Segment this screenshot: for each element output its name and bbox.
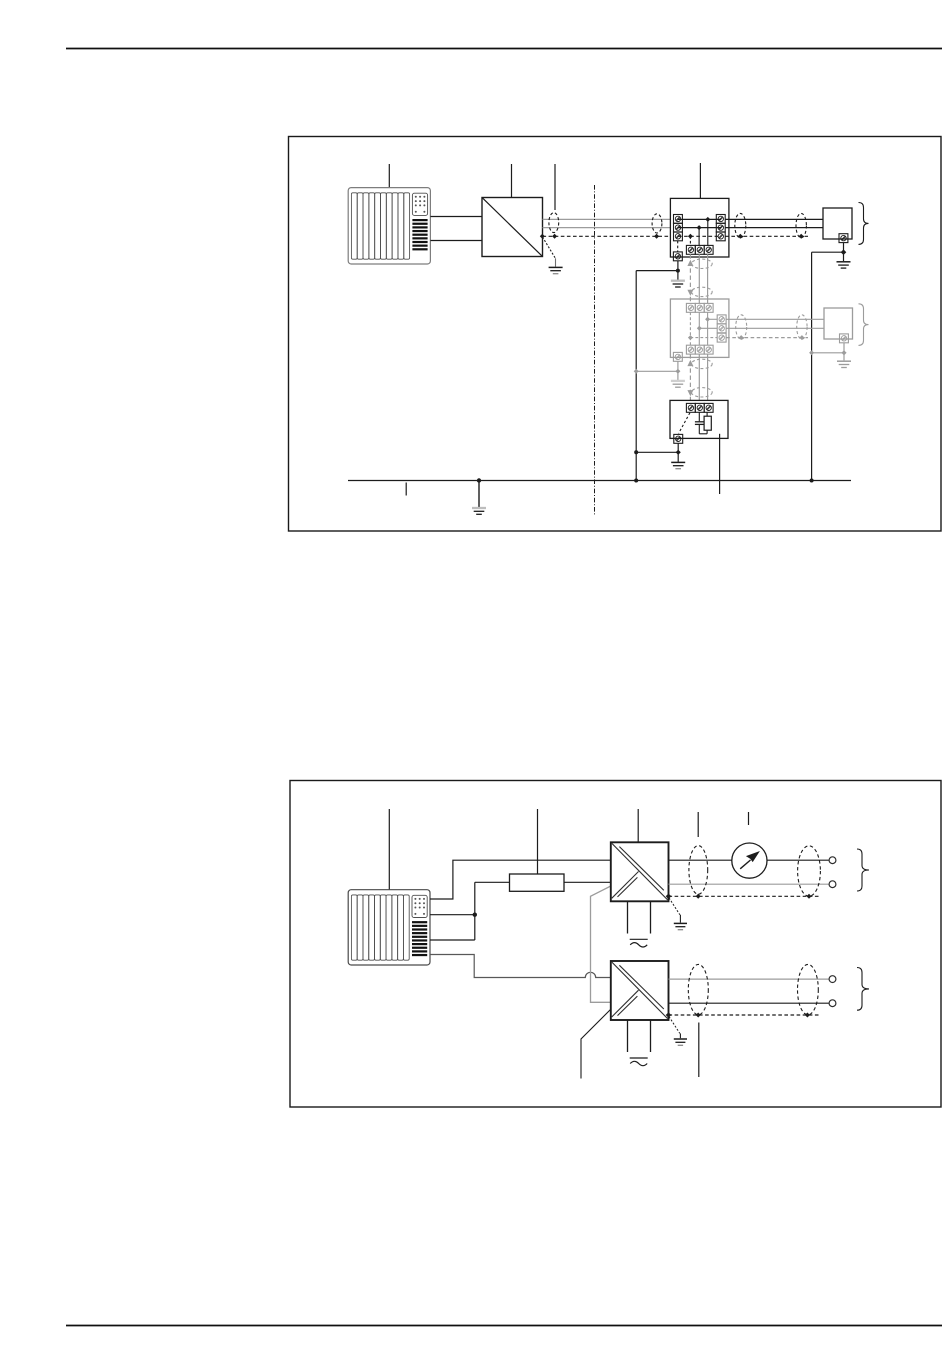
wire: shield channel A (dashed) xyxy=(669,895,821,897)
cable marker ellipse (gray) above box2 xyxy=(691,287,712,296)
wire: junction box to transmitter, conductor 1 xyxy=(725,218,823,220)
wire: junction box internal conductor 1 xyxy=(678,218,721,220)
wire: gray branch to right terminal 1 xyxy=(708,318,718,320)
transmitter (field device) xyxy=(823,208,852,239)
wire: transmitter2 earth down xyxy=(843,343,845,361)
cable marker ellipse (gray) after box2 xyxy=(736,315,747,339)
wire: gray branch to right terminal 3 (dashed) xyxy=(690,337,717,339)
terminal strip: junction box right, terminal 3 xyxy=(716,232,725,241)
indicator / ammeter xyxy=(732,843,767,878)
cable marker ellipse (gray) below box2 xyxy=(691,359,712,368)
leader line: indicator xyxy=(748,812,750,825)
terminal row: box2 bottom 2 xyxy=(695,345,704,354)
wire: left potential-equalization riser xyxy=(635,271,637,481)
capacitor inside box3 xyxy=(695,412,704,434)
node: shield tap at barrier A xyxy=(666,894,672,900)
earth terminal of transmitter xyxy=(839,234,848,243)
wire: gray conductor riser b box1 to box2 xyxy=(707,254,709,303)
wire: dashed drop to barrier A ground xyxy=(669,898,680,915)
wire: branch shield to spare terminal 1 (dashed) xyxy=(689,236,691,246)
terminal strip: junction box left, terminal 2 xyxy=(674,223,683,232)
wire: gray interconnect barrier A to barrier B xyxy=(591,886,612,1002)
terminal row: box2 bottom 3 xyxy=(704,345,713,354)
terminal strip: junction box right, terminal 2 xyxy=(716,223,725,232)
wire: RC bottom link xyxy=(699,433,707,435)
leader line: barrier B (diagonal) xyxy=(581,1010,611,1079)
leader line: cable entry xyxy=(554,164,556,210)
node: box3 earth node xyxy=(676,450,681,455)
wire: gray internal riser shield (dashed) xyxy=(689,312,691,345)
ground: junction box xyxy=(671,281,685,287)
wire: supply unit to junction box, conductor 2 (gray) xyxy=(543,227,674,229)
cable marker ellipse (dashed) at transmitter xyxy=(796,213,806,237)
header rule xyxy=(66,48,942,50)
terminal row: box3 terminal 3 xyxy=(704,403,713,412)
terminal row: box3 terminal 1 xyxy=(686,403,695,412)
wire: PLC to supply unit (+) xyxy=(430,216,482,218)
wire: junction box to transmitter, conductor 2 xyxy=(725,227,823,229)
node: shield junction after junction box xyxy=(738,234,743,239)
wire: gray conductor riser a box1 to box2 xyxy=(698,254,700,303)
arrow: cable direction up xyxy=(687,260,693,266)
wire: cable shield (dashed) supply unit to junction box xyxy=(543,235,674,237)
ground: box3 xyxy=(671,462,685,468)
node: transmitter earth node xyxy=(841,249,847,255)
terminal row: box3 terminal 2 xyxy=(695,403,704,412)
brace: sensor connection (gray) xyxy=(859,304,869,346)
zone divider (hazardous / non-hazardous area) xyxy=(594,185,596,516)
node: shield junction under ellipse A2 xyxy=(807,894,812,899)
ground: barrier A xyxy=(674,923,687,929)
wire: box2 to transmitter2 conductor 2 (gray) xyxy=(726,327,824,329)
active barrier B symbol xyxy=(612,962,668,1018)
active barrier B box xyxy=(611,961,669,1020)
leader line: PLC xyxy=(388,164,390,190)
junction box (field) xyxy=(670,198,729,257)
node: transmitter2 earth node xyxy=(841,350,846,355)
figure frame: diagram 1 xyxy=(289,137,942,532)
wire: junction box internal shield (dashed) xyxy=(678,235,721,237)
arrow: cable direction down (lower gap) xyxy=(687,390,693,396)
node: bus ground tap xyxy=(477,478,481,482)
node: box2 earth node xyxy=(675,369,680,374)
ground: barrier B xyxy=(674,1039,687,1045)
wire: barrier B conductor + (gray) xyxy=(669,978,830,980)
wire: branch conductor 1 to spare terminal 3 xyxy=(707,219,709,246)
terminal column: box2 right 3 xyxy=(717,333,726,342)
leader line: box3 xyxy=(719,434,721,494)
wire: right potential-equalization riser xyxy=(811,252,813,480)
wire: barrier A conductor - (gray) xyxy=(669,883,830,885)
earth terminal of box3 xyxy=(674,434,683,443)
junction box option 2 (gray) xyxy=(670,299,729,357)
brace: sensor connection (top) xyxy=(859,203,869,245)
cable marker ellipse (gray) below box1 xyxy=(691,259,712,268)
node: shield tap at barrier B xyxy=(666,1012,672,1018)
terminal column: box2 right 2 xyxy=(717,324,726,333)
wire: PLC pins to resistor node xyxy=(430,882,510,940)
terminal row: junction box bottom, spare terminal 1 xyxy=(686,245,695,254)
cable marker ellipse A1 xyxy=(689,846,708,895)
node: shield junction at transmitter xyxy=(799,234,804,239)
wire: box3 earth bonding to left riser xyxy=(636,451,678,453)
cable marker ellipse B2 xyxy=(798,964,819,1014)
wire: box3 earth down xyxy=(677,443,679,462)
earth terminal of transmitter2 xyxy=(840,334,849,343)
power supply symbol: barrier A xyxy=(630,939,648,947)
cable marker ellipse B1 xyxy=(688,964,708,1014)
ground: transmitter2 (gray) xyxy=(837,361,851,367)
ammeter needle xyxy=(740,860,750,869)
leader line: barrier A xyxy=(637,809,639,850)
transmitter 2 (gray option) xyxy=(824,308,853,339)
wire: gray branch to right terminal 2 xyxy=(699,327,717,329)
cable marker ellipse (gray) at transmitter2 xyxy=(797,315,807,339)
leader line: PLC (diagram 2) xyxy=(388,809,390,890)
wire: indicator to terminal + xyxy=(767,859,829,861)
leader line: junction box xyxy=(699,163,701,205)
cable marker ellipse (dashed) before junction box xyxy=(652,214,662,233)
wire: box2 shield (dashed gray) xyxy=(726,337,808,339)
potential equalization line xyxy=(348,480,851,482)
supply legs: barrier A xyxy=(627,901,629,933)
ground: supply unit xyxy=(549,267,563,273)
wire: PLC to supply unit (-) xyxy=(430,240,482,242)
cable marker ellipse (dashed) after junction box xyxy=(735,213,746,237)
communication resistor box xyxy=(510,874,565,891)
node: shield junction before junction box xyxy=(654,234,659,239)
terminal: channel A + xyxy=(829,857,836,864)
leader line: supply unit xyxy=(511,164,513,206)
wire: box2 to transmitter2 conductor 1 (gray) xyxy=(726,318,824,320)
node: gray tie to left riser xyxy=(634,369,639,374)
leader line: cable B (below) xyxy=(698,1023,700,1078)
PLC / control system pictogram (diagram 2) xyxy=(348,890,430,965)
power supply symbol: barrier B xyxy=(630,1058,648,1066)
leader line: cable A xyxy=(697,812,699,837)
wire: gray shield riser (dashed) box1 to box2 xyxy=(689,254,691,303)
wire: transmitter earth down xyxy=(843,243,845,261)
arrow: cable direction down xyxy=(687,290,693,296)
wire: box2 earth bonding to left riser xyxy=(636,370,678,372)
wire: dashed drop to supply-unit ground xyxy=(543,237,556,258)
earth terminal of box2 xyxy=(673,352,682,361)
node: shield junction under ellipse B2 xyxy=(805,1013,810,1018)
terminal row: box2 bottom 1 xyxy=(686,345,695,354)
node: tie on left riser xyxy=(634,450,638,454)
transmitter power supply unit (isolator square) xyxy=(482,198,543,257)
wire: branch conductor 2 to spare terminal 2 xyxy=(698,228,700,246)
brace: channel A field side xyxy=(857,849,869,891)
leader line: communication resistor xyxy=(537,809,539,878)
node: left riser on bus xyxy=(634,479,638,483)
ground: box2 (gray) xyxy=(671,381,685,387)
terminal row: box2 top 2 xyxy=(695,303,704,312)
resistor inside box3 xyxy=(704,412,711,434)
wire: dashed drop to barrier B ground xyxy=(669,1017,680,1034)
wire: shield (dashed) junction box to transmitter xyxy=(725,235,808,237)
wire: transmitter2 earth to right riser xyxy=(812,352,844,354)
brace: channel B field side xyxy=(857,968,869,1011)
terminal row: junction box bottom, spare terminal 2 xyxy=(695,245,704,254)
active barrier A box xyxy=(611,842,669,901)
footer rule xyxy=(66,1325,942,1327)
terminal strip: junction box left, terminal 3 xyxy=(674,232,683,241)
node: shield junction under first ellipse xyxy=(552,234,557,239)
terminal row: box2 top 1 xyxy=(686,303,695,312)
ground: potential equalization xyxy=(472,508,486,514)
wire: gray shield riser (dashed) box2 to box3 xyxy=(689,354,691,403)
figure frame: diagram 2 xyxy=(290,781,941,1108)
terminal row: junction box bottom, spare terminal 3 xyxy=(704,245,713,254)
wire: gray internal riser b xyxy=(707,312,709,345)
node: PLC minus junction xyxy=(473,913,477,917)
terminal: channel B + xyxy=(829,976,836,983)
cable marker ellipse (dashed) after supply unit xyxy=(549,213,559,233)
wire: gray conductor riser a box2 to box3 xyxy=(698,354,700,403)
node: shield junction under ellipse A1 xyxy=(696,894,701,899)
arrow: cable direction up (lower gap) xyxy=(687,360,693,366)
wire: bus ground stem xyxy=(478,481,480,508)
wire: dashed link terminal1 to earth terminal xyxy=(679,413,690,434)
terminal: channel B - xyxy=(829,1000,836,1007)
active barrier A symbol xyxy=(612,844,668,900)
node: gray tie to right riser xyxy=(809,350,814,355)
wire: box2 earth down xyxy=(677,361,679,380)
terminal: channel A - xyxy=(829,881,836,888)
wire: shield channel B (dashed) xyxy=(669,1014,821,1016)
node: shield tap at supply unit xyxy=(540,234,545,239)
wire: resistor to barrier A xyxy=(564,881,611,883)
supply legs: barrier B xyxy=(627,1020,629,1052)
wire: transmitter earth to right riser xyxy=(812,251,844,253)
wire: gray conductor riser b box2 to box3 xyxy=(707,354,709,403)
wire: gray internal riser a xyxy=(698,312,700,345)
wire: PLC to barrier B (lower, with hop) xyxy=(430,955,611,978)
wire: supply unit to junction box, conductor 1 (gray) xyxy=(543,218,674,220)
terminal column: box2 right 1 xyxy=(717,315,726,324)
terminal strip: junction box right, terminal 1 xyxy=(716,215,725,224)
remote indicator box xyxy=(670,400,728,438)
node: shield junction under ellipse B1 xyxy=(696,1013,701,1018)
wire: barrier A to indicator (conductor +) xyxy=(669,859,732,861)
wire: barrier B conductor - xyxy=(669,1002,830,1004)
PLC / control system pictogram xyxy=(348,188,430,264)
earth terminal of junction box xyxy=(673,252,682,261)
wire: PLC to barrier A conductor + xyxy=(430,860,611,899)
wire: earth bonding to left riser xyxy=(636,270,678,272)
cable marker ellipse (gray) above box3 xyxy=(691,388,712,397)
terminal row: box2 top 3 xyxy=(704,303,713,312)
wire: junction box internal conductor 2 xyxy=(678,227,721,229)
cable marker ellipse A2 xyxy=(798,846,821,896)
terminal strip: junction box left, terminal 1 xyxy=(674,215,683,224)
node: junction box earth node xyxy=(676,269,680,273)
wire: dashed link left terminal 3 to earth terminal xyxy=(677,241,679,252)
leader tick on bus xyxy=(405,483,407,496)
wire: junction box earth terminal down xyxy=(677,261,679,280)
node: right riser on bus xyxy=(810,479,814,483)
ground: transmitter xyxy=(837,262,851,268)
